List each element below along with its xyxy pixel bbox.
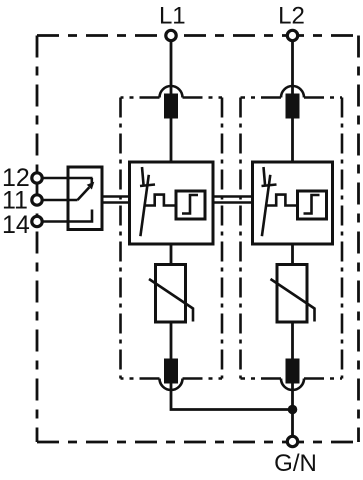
svg-text:G/N: G/N — [274, 450, 317, 477]
terminal L1 — [166, 30, 176, 40]
terminal L2 — [287, 30, 297, 40]
disconnect element bottom, module 2 — [286, 359, 300, 384]
wire L1 down to junction and across to G/N node — [171, 42, 293, 410]
wire terminal 11 to contact pivot — [42, 199, 78, 202]
mechanical link (spark gap U1 to spark gap U2) — [213, 197, 253, 203]
svg-text:L2: L2 — [278, 3, 305, 30]
wire L2 down to G/N terminal — [291, 42, 294, 436]
terminal 12 — [32, 173, 42, 183]
mechanical link (remote contact to spark gap U1) — [102, 197, 130, 203]
spark gap U2 step glyph — [304, 195, 320, 214]
svg-text:14: 14 — [2, 211, 30, 239]
spark gap U1 trigger box — [176, 191, 205, 219]
svg-text:L1: L1 — [159, 3, 186, 30]
changeover contact blade with arrow — [78, 182, 95, 200]
spark gap U1 step glyph — [182, 195, 198, 214]
wire terminal 14 to contact — [42, 210, 92, 222]
spark gap U1 trigger wave — [145, 195, 176, 206]
varistor RV1 — [149, 265, 193, 323]
SPD module 2 enclosure (dash-dot box with arcs) — [241, 86, 343, 390]
thermal disconnect fuse F1 (top, module 1) — [164, 94, 178, 119]
spark gap U1 disconnector symbol — [140, 167, 155, 236]
terminal 11 — [32, 195, 42, 205]
terminal G/N — [287, 436, 297, 446]
spark gap unit U1 box — [130, 162, 214, 244]
varistor RV2 — [271, 265, 315, 323]
spark gap U2 disconnector symbol — [262, 167, 277, 236]
thermal disconnect fuse F2 (top, module 2) — [286, 94, 300, 119]
junction node — [288, 405, 298, 415]
terminal 14 — [32, 216, 42, 226]
device boundary (dashed enclosure) — [37, 36, 359, 443]
remote signalling contact box S1 — [68, 167, 102, 230]
disconnect element bottom, module 1 — [164, 359, 178, 384]
spark gap U2 trigger wave — [266, 195, 297, 206]
wire terminal 12 to contact — [42, 178, 93, 184]
SPD module 1 enclosure (dash-dot box with arcs) — [121, 86, 223, 390]
spark gap U2 trigger box — [298, 191, 327, 219]
spark gap unit U2 box — [253, 162, 333, 244]
